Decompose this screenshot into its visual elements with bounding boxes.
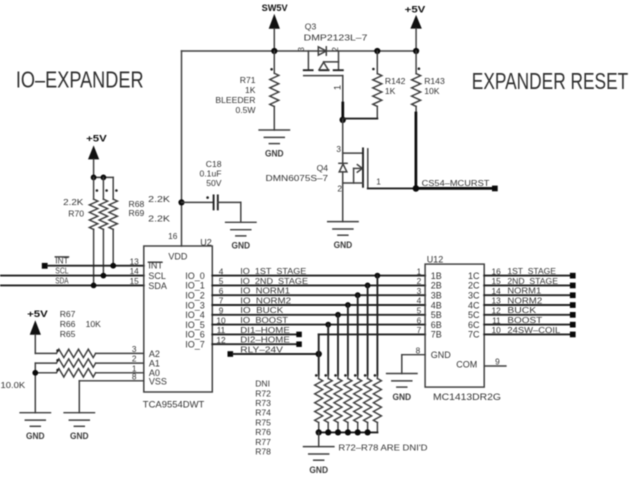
svg-text:4C: 4C bbox=[468, 300, 480, 310]
wire U2 pin 10 row to U12 bbox=[212, 322, 425, 328]
svg-text:GND: GND bbox=[26, 431, 45, 441]
pin number 11 (U12 6C) bbox=[492, 315, 501, 325]
svg-text:6C: 6C bbox=[468, 320, 480, 330]
svg-text:IO 1ST STAGE: IO 1ST STAGE bbox=[240, 266, 306, 276]
svg-text:7B: 7B bbox=[431, 330, 442, 340]
svg-text:R72: R72 bbox=[255, 388, 271, 398]
wire U12 pin 13 output NORM2 bbox=[484, 302, 575, 308]
net label 1ST&#160; bbox=[507, 266, 556, 276]
svg-text:DMN6075S–7: DMN6075S–7 bbox=[266, 173, 329, 183]
power symbol +5V (R68-R70 pullups) bbox=[86, 134, 107, 178]
svg-text:1C: 1C bbox=[468, 271, 480, 281]
wire R68 bottom to SCL bbox=[102, 229, 104, 275]
capacitor C18 0.1uF 50V bbox=[182, 159, 241, 222]
pin number 14 bbox=[130, 266, 140, 276]
wire U2 pin 6 row to U12 bbox=[212, 292, 425, 298]
net label DI2&#8211;HOME bbox=[240, 335, 290, 345]
svg-text:R66: R66 bbox=[60, 319, 76, 329]
svg-text:6: 6 bbox=[219, 286, 224, 296]
wire drop from row to resistor R73 bbox=[327, 325, 329, 376]
wire drop from row to resistor R75 bbox=[347, 305, 349, 375]
svg-text:10: 10 bbox=[216, 315, 226, 325]
pin number 7 (U12 7B) bbox=[417, 325, 422, 335]
wire R70 bottom to SDA bbox=[93, 229, 95, 285]
svg-text:1K: 1K bbox=[245, 85, 256, 95]
pin number 2 (U12 2B) bbox=[417, 276, 422, 286]
wire U12 pin 14 output NORM1 bbox=[484, 292, 575, 298]
wire U2 pin 11 row to terminal bbox=[212, 332, 301, 338]
net label DI1&#8211;HOME bbox=[240, 325, 290, 335]
wire U12 pin 11 output BOOST bbox=[484, 322, 575, 328]
wire vertical SW5V rail to U2 VDD pin 16 bbox=[181, 51, 183, 246]
resistor R72 (DNI) bbox=[315, 374, 323, 432]
svg-text:+5V: +5V bbox=[27, 309, 48, 320]
svg-text:1ST STAGE: 1ST STAGE bbox=[507, 266, 556, 276]
transistor Q3 DMP2123L-7 P-MOSFET bbox=[297, 21, 368, 75]
U2 pin label IO_1 bbox=[185, 281, 205, 291]
svg-text:A1: A1 bbox=[149, 359, 160, 369]
svg-text:U12: U12 bbox=[427, 254, 444, 264]
junction node RLY-24V / R72 bbox=[316, 351, 322, 357]
svg-text:IO_6: IO_6 bbox=[185, 330, 205, 340]
svg-text:VDD: VDD bbox=[168, 251, 188, 261]
svg-text:4: 4 bbox=[219, 266, 224, 276]
svg-text:3C: 3C bbox=[468, 291, 480, 301]
svg-text:6: 6 bbox=[417, 315, 422, 325]
svg-text:R71: R71 bbox=[240, 75, 256, 85]
svg-text:SCL: SCL bbox=[55, 266, 68, 276]
ground below R71 bbox=[259, 130, 289, 158]
svg-text:7: 7 bbox=[219, 296, 224, 306]
svg-text:IO–EXPANDER: IO–EXPANDER bbox=[16, 67, 144, 93]
svg-text:IO_2: IO_2 bbox=[185, 291, 205, 301]
net label BUCK bbox=[507, 305, 536, 315]
svg-text:R77: R77 bbox=[255, 437, 271, 447]
svg-text:R143: R143 bbox=[424, 76, 445, 86]
wire U2 pin 9 row to U12 bbox=[212, 312, 425, 318]
net label 24SW&#821 bbox=[507, 325, 560, 335]
svg-text:1: 1 bbox=[417, 266, 422, 276]
svg-text:SCL: SCL bbox=[148, 271, 166, 281]
svg-text:2.2K: 2.2K bbox=[63, 197, 84, 207]
U2 pin label IO_3 bbox=[185, 300, 205, 310]
svg-text:IO NORM2: IO NORM2 bbox=[240, 295, 291, 305]
wire U12 pin 15 output 2ND&#160; bbox=[484, 283, 575, 289]
svg-text:3B: 3B bbox=[431, 291, 442, 301]
svg-text:3: 3 bbox=[297, 47, 306, 51]
svg-text:2.2K: 2.2K bbox=[148, 214, 170, 224]
svg-text:GND: GND bbox=[309, 465, 328, 475]
svg-text:IO_3: IO_3 bbox=[185, 300, 205, 310]
pin number 8 (U12 GND) bbox=[416, 346, 421, 356]
wire U2 pin 12 row to terminal bbox=[212, 341, 301, 347]
pin number 15 bbox=[130, 276, 140, 286]
svg-text:GND: GND bbox=[232, 241, 251, 251]
wire SW5V rail horizontal bbox=[182, 50, 417, 52]
svg-text:4: 4 bbox=[417, 296, 422, 306]
wire A1/A0 pulldown to ground bbox=[32, 363, 38, 413]
U2 pin label IO_5 bbox=[185, 320, 205, 330]
wire U12 GND pin 8 to ground bbox=[402, 355, 425, 374]
ground below DNI resistors bbox=[304, 432, 334, 475]
svg-text:1: 1 bbox=[332, 85, 343, 90]
wire drop RLY-24V to resistor R72 bbox=[318, 354, 320, 375]
net label IO&#160;&#160;2N bbox=[240, 276, 308, 286]
svg-text:NORM1: NORM1 bbox=[507, 286, 541, 296]
svg-text:2B: 2B bbox=[431, 281, 442, 291]
label DNI resistor list bbox=[255, 378, 271, 456]
net label 2ND&#160; bbox=[507, 276, 558, 286]
svg-text:R72–R78 ARE DNI'D: R72–R78 ARE DNI'D bbox=[338, 442, 427, 452]
note R72-R78 ARE DNI'D bbox=[338, 442, 427, 452]
svg-text:13: 13 bbox=[130, 256, 140, 266]
pin number 1 bbox=[132, 363, 137, 373]
svg-text:GND: GND bbox=[393, 392, 412, 402]
wire drop from row to resistor R76 bbox=[357, 295, 359, 375]
ground below U12 pin 8 bbox=[387, 374, 417, 402]
pin number 13 bbox=[130, 256, 140, 266]
net RLY-24V wire with terminal square bbox=[228, 344, 319, 356]
svg-text:8: 8 bbox=[132, 371, 137, 381]
svg-text:IO BOOST: IO BOOST bbox=[240, 315, 289, 325]
svg-text:SDA: SDA bbox=[148, 281, 167, 291]
title EXPANDER RESET bbox=[472, 68, 628, 94]
svg-text:5C: 5C bbox=[468, 310, 480, 320]
svg-text:NORM2: NORM2 bbox=[507, 295, 542, 305]
junction node Q3 gate / R142 / Q4 drain bbox=[340, 117, 346, 123]
svg-text:IO_1: IO_1 bbox=[185, 281, 205, 291]
svg-text:Q3: Q3 bbox=[305, 21, 317, 31]
net INT wire with terminal square bbox=[42, 256, 144, 269]
svg-text:DNI: DNI bbox=[255, 378, 270, 388]
net label IO&#160;&#160;NO bbox=[240, 295, 291, 305]
wire VSS pin 8 to ground bbox=[79, 381, 144, 413]
svg-text:+5V: +5V bbox=[405, 4, 426, 15]
net SDA wire bbox=[0, 275, 144, 288]
ground below C18 bbox=[226, 222, 256, 250]
resistor R65 10K (A0) bbox=[35, 369, 144, 377]
svg-text:Q4: Q4 bbox=[317, 163, 329, 173]
svg-text:9: 9 bbox=[219, 306, 224, 316]
wire drop from row to resistor R74 bbox=[337, 315, 339, 375]
svg-text:6B: 6B bbox=[431, 320, 442, 330]
power symbol +5V (top) bbox=[405, 4, 426, 51]
pin number 3 bbox=[132, 344, 137, 354]
svg-text:BUCK: BUCK bbox=[507, 305, 536, 315]
svg-text:SW5V: SW5V bbox=[262, 3, 289, 14]
resistor R70 2.2K bbox=[63, 177, 98, 229]
pin number 6 (U2 IO_2) bbox=[219, 286, 224, 296]
net label NORM2 bbox=[507, 295, 542, 305]
wire pullup top link bar bbox=[91, 175, 114, 181]
svg-text:TCA9554DWT: TCA9554DWT bbox=[143, 400, 205, 410]
svg-text:2: 2 bbox=[417, 276, 422, 286]
pin number 14 (U12 3C) bbox=[491, 286, 501, 296]
resistor R74 (DNI) bbox=[334, 374, 342, 432]
pin number 10 (U2 IO_5) bbox=[216, 315, 226, 325]
svg-text:R67: R67 bbox=[60, 309, 76, 319]
net label IO&#160;&#160;1S bbox=[240, 266, 306, 276]
svg-text:IO_7: IO_7 bbox=[185, 340, 205, 350]
pin number 5 (U12 5B) bbox=[417, 306, 422, 316]
resistor R77 (DNI) bbox=[364, 374, 372, 432]
svg-text:EXPANDER RESET: EXPANDER RESET bbox=[472, 68, 628, 94]
svg-text:1: 1 bbox=[376, 176, 381, 186]
U2 pin label IO_4 bbox=[185, 310, 205, 320]
pin number 3 (U12 3B) bbox=[417, 286, 422, 296]
wire DNI resistor bottom bus bbox=[316, 429, 378, 435]
svg-text:R74: R74 bbox=[255, 408, 271, 418]
U2 pin label IO_2 bbox=[185, 291, 205, 301]
svg-text:1K: 1K bbox=[385, 86, 396, 96]
svg-text:IO_0: IO_0 bbox=[185, 271, 205, 281]
wire R69 bottom to INT bbox=[112, 229, 114, 265]
pin number 12 (U12 5C) bbox=[491, 306, 501, 316]
resistor R68 2.2K bbox=[99, 177, 170, 229]
svg-text:11: 11 bbox=[492, 315, 501, 325]
svg-text:R142: R142 bbox=[385, 76, 406, 86]
wire R142 bottom to Q3 gate node bbox=[343, 118, 378, 120]
op-amp U12 MC1413DR2G driver IC body bbox=[425, 254, 501, 402]
pin number 2 bbox=[132, 354, 137, 364]
transistor Q4 DMN6075S-7 N-MOSFET bbox=[266, 120, 368, 222]
resistor R71 1K BLEEDER 0.5W bbox=[215, 51, 278, 130]
label R67 R66 R65 10K bbox=[60, 309, 101, 339]
net label IO&#160;&#160;NO bbox=[240, 286, 290, 296]
wire RLY-24V up and over to U12 pin 7B bbox=[319, 334, 425, 354]
svg-text:14: 14 bbox=[491, 286, 501, 296]
svg-text:16: 16 bbox=[168, 231, 178, 241]
svg-text:13: 13 bbox=[491, 296, 501, 306]
wire U12 pin 12 output BUCK bbox=[484, 312, 575, 318]
wire Q4 gate to CS54 node, pin 1 bbox=[368, 176, 416, 188]
svg-text:R69: R69 bbox=[129, 208, 145, 218]
net label BOOST bbox=[507, 315, 543, 325]
svg-text:10K: 10K bbox=[424, 86, 440, 96]
wire Q3 gate down to node bbox=[332, 76, 343, 120]
svg-text:14: 14 bbox=[130, 266, 140, 276]
U2 pin label IO_6 bbox=[185, 330, 205, 340]
svg-text:11: 11 bbox=[217, 325, 226, 335]
svg-text:10.0K: 10.0K bbox=[1, 380, 26, 390]
svg-text:CS54–MCURST: CS54–MCURST bbox=[422, 178, 491, 188]
svg-text:12: 12 bbox=[491, 306, 501, 316]
svg-text:GND: GND bbox=[334, 240, 353, 250]
pin 16 VDD stub label bbox=[168, 231, 178, 241]
resistor R69 2.2K bbox=[109, 177, 170, 229]
title IO-EXPANDER bbox=[16, 67, 144, 93]
pin number 11 (U2 IO_6) bbox=[217, 325, 226, 335]
U2 pin label IO_7 bbox=[185, 340, 205, 350]
net label IO&#160;&#160;BU bbox=[240, 305, 283, 315]
svg-text:+5V: +5V bbox=[86, 134, 107, 145]
svg-text:3: 3 bbox=[336, 144, 341, 154]
U2 pin label IO_0 bbox=[185, 271, 205, 281]
wire U2 pin 4 row to U12 bbox=[212, 273, 425, 279]
svg-text:10: 10 bbox=[491, 325, 501, 335]
svg-text:R75: R75 bbox=[255, 418, 271, 428]
svg-text:R73: R73 bbox=[255, 398, 271, 408]
svg-text:GND: GND bbox=[70, 431, 89, 441]
junction node SW5V/R71 bbox=[271, 48, 277, 54]
resistor R67 10K (A2) bbox=[35, 349, 144, 357]
wire drop from row to resistor R77 bbox=[367, 285, 369, 375]
junction node CS54-MCURST bbox=[413, 185, 420, 192]
svg-text:R70: R70 bbox=[68, 208, 84, 218]
svg-text:GND: GND bbox=[431, 350, 452, 360]
svg-text:IO_5: IO_5 bbox=[185, 320, 205, 330]
pin number 6 (U12 6B) bbox=[417, 315, 422, 325]
pin number 4 (U2 IO_0) bbox=[219, 266, 224, 276]
svg-text:7C: 7C bbox=[468, 330, 480, 340]
junction node C18 tap bbox=[178, 199, 184, 205]
svg-text:IO NORM1: IO NORM1 bbox=[240, 286, 290, 296]
pin number 16 (U12 1C) bbox=[491, 266, 501, 276]
svg-text:0.5W: 0.5W bbox=[235, 105, 256, 115]
svg-text:IO_4: IO_4 bbox=[185, 310, 205, 320]
svg-text:RLY–24V: RLY–24V bbox=[240, 344, 283, 354]
svg-text:DI1–HOME: DI1–HOME bbox=[240, 325, 290, 335]
svg-text:BLEEDER: BLEEDER bbox=[215, 95, 255, 105]
svg-text:U2: U2 bbox=[200, 237, 212, 247]
pin number 9 (U12 COM) stub bbox=[484, 356, 506, 366]
wire U12 pin 10 output 24SW&#821 bbox=[484, 332, 575, 338]
svg-text:3: 3 bbox=[132, 344, 137, 354]
resistor R73 (DNI) bbox=[324, 374, 332, 432]
pin number 5 (U2 IO_1) bbox=[219, 276, 224, 286]
svg-text:IO 2ND STAGE: IO 2ND STAGE bbox=[240, 276, 308, 286]
net label CS54-MCURST wire and terminal bbox=[416, 178, 498, 191]
svg-text:2: 2 bbox=[337, 184, 342, 194]
svg-text:3: 3 bbox=[417, 286, 422, 296]
svg-text:24SW–COIL: 24SW–COIL bbox=[507, 325, 560, 335]
svg-text:A2: A2 bbox=[149, 349, 160, 359]
svg-text:C18: C18 bbox=[206, 159, 222, 169]
svg-text:IO BUCK: IO BUCK bbox=[240, 305, 283, 315]
pin number 12 (U2 IO_7) bbox=[216, 335, 226, 345]
wire drop from row to resistor R78 bbox=[376, 276, 378, 376]
wire U12 pin 16 output 1ST&#160; bbox=[484, 273, 575, 279]
svg-text:GND: GND bbox=[265, 148, 284, 158]
wire U2 pin 7 row to U12 bbox=[212, 302, 425, 308]
svg-text:5: 5 bbox=[219, 276, 224, 286]
net SCL wire bbox=[0, 266, 144, 279]
resistor R76 (DNI) bbox=[354, 374, 362, 432]
svg-text:2C: 2C bbox=[468, 281, 480, 291]
wire R143 bottom to CS54 node bbox=[415, 113, 418, 188]
wire U2 pin 5 row to U12 bbox=[212, 283, 425, 289]
svg-text:12: 12 bbox=[216, 335, 226, 345]
svg-text:2: 2 bbox=[331, 47, 340, 51]
ground below Q4 bbox=[328, 222, 358, 250]
resistor R66 10K (A1) bbox=[35, 359, 144, 367]
svg-text:R78: R78 bbox=[255, 447, 271, 457]
svg-text:15: 15 bbox=[491, 276, 501, 286]
power symbol SW5V bbox=[262, 3, 289, 51]
svg-text:DMP2123L–7: DMP2123L–7 bbox=[304, 32, 368, 42]
svg-text:50V: 50V bbox=[206, 178, 222, 188]
pin number 4 (U12 4B) bbox=[417, 296, 422, 306]
pin number 1 (U12 1B) bbox=[417, 266, 422, 276]
power symbol +5V (A2 pullup) bbox=[27, 309, 48, 354]
pin number 13 (U12 4C) bbox=[491, 296, 501, 306]
pin number 15 (U12 2C) bbox=[491, 276, 501, 286]
net label IO&#160;&#160;BO bbox=[240, 315, 289, 325]
svg-text:10K: 10K bbox=[86, 319, 102, 329]
svg-text:2ND STAGE: 2ND STAGE bbox=[507, 276, 558, 286]
resistor R143 10K bbox=[412, 48, 445, 113]
svg-text:R76: R76 bbox=[255, 427, 271, 437]
svg-text:2.2K: 2.2K bbox=[148, 194, 170, 204]
resistor R142 1K bbox=[372, 48, 406, 119]
svg-text:9: 9 bbox=[495, 356, 500, 366]
svg-text:7: 7 bbox=[417, 325, 422, 335]
svg-text:15: 15 bbox=[130, 276, 140, 286]
svg-text:MC1413DR2G: MC1413DR2G bbox=[433, 392, 501, 402]
svg-text:COM: COM bbox=[456, 359, 477, 369]
resistor R78 (DNI) bbox=[373, 374, 381, 432]
svg-text:SDA: SDA bbox=[55, 275, 68, 285]
pin number 8 bbox=[132, 371, 137, 381]
svg-text:R65: R65 bbox=[60, 329, 76, 339]
ground below A1/A0 resistors bbox=[20, 413, 50, 441]
svg-text:1B: 1B bbox=[431, 271, 442, 281]
ground below U2 VSS bbox=[64, 413, 94, 441]
net label NORM1 bbox=[507, 286, 541, 296]
op-amp U2 TCA9554DWT IO expander IC body bbox=[143, 237, 213, 409]
svg-text:BOOST: BOOST bbox=[507, 315, 543, 325]
svg-text:4B: 4B bbox=[431, 300, 442, 310]
pin number 7 (U2 IO_3) bbox=[219, 296, 224, 306]
svg-text:DI2–HOME: DI2–HOME bbox=[240, 335, 290, 345]
svg-text:VSS: VSS bbox=[149, 377, 167, 387]
svg-text:16: 16 bbox=[491, 266, 501, 276]
svg-text:2: 2 bbox=[132, 354, 137, 364]
svg-text:5: 5 bbox=[417, 306, 422, 316]
resistor R75 (DNI) bbox=[344, 374, 352, 432]
pin number 9 (U2 IO_4) bbox=[219, 306, 224, 316]
label 10.0K bbox=[1, 380, 26, 390]
pin number 10 (U12 7C) bbox=[491, 325, 501, 335]
svg-text:5B: 5B bbox=[431, 310, 442, 320]
